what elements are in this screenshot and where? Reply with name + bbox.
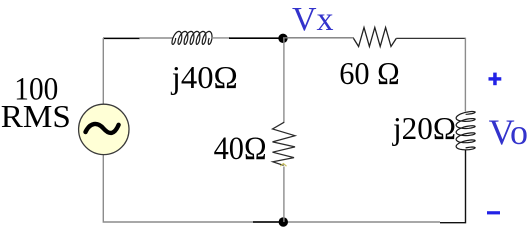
svg-text:60 Ω: 60 Ω	[339, 55, 400, 91]
svg-text:j20Ω: j20Ω	[392, 110, 456, 146]
wire inductor to node gray part	[211, 37, 230, 39]
wire middle vertical upper gray	[283, 38, 285, 123]
wire resistor 60 to right corner	[396, 37, 465, 39]
inductor L2 j20 coil vertical	[456, 112, 475, 150]
source sine tilde	[86, 124, 119, 133]
resistor R2 40 ohm vertical zigzag	[273, 122, 296, 165]
wire right vertical upper gray	[464, 38, 466, 112]
wire left vertical upper gray	[102, 38, 104, 106]
wire bottom rail gray	[103, 154, 440, 223]
source VS circle	[79, 104, 129, 154]
svg-text:40Ω: 40Ω	[214, 131, 267, 167]
resistor R1 60 ohm zigzag	[354, 28, 397, 47]
wire bottom black segment	[253, 221, 283, 223]
wire top horizontal gray to inductor	[139, 37, 173, 39]
node bottom junction dot	[279, 217, 288, 226]
wire middle vertical lower gray	[283, 167, 285, 223]
svg-text:Vx: Vx	[292, 1, 334, 38]
wire node to resistor 60	[283, 37, 354, 39]
wire inductor to node black part	[229, 37, 283, 39]
plus sign	[489, 77, 502, 80]
small yellow artifact at resistor tip	[280, 164, 286, 167]
svg-text:j40Ω: j40Ω	[171, 59, 238, 95]
wire right vertical lower black	[440, 150, 466, 223]
wire top-left horizontal black segment	[103, 37, 140, 39]
minus sign	[487, 211, 500, 214]
inductor L1 j40 coil	[172, 31, 212, 44]
svg-text:RMS: RMS	[1, 98, 71, 134]
svg-text:Vo: Vo	[489, 112, 528, 152]
node Vx junction dot	[278, 34, 287, 43]
